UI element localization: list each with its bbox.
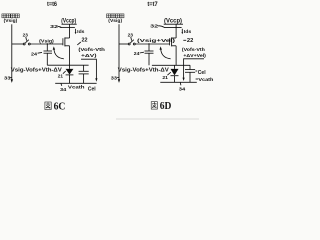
svg-text:(Vsig): (Vsig) xyxy=(4,18,18,24)
wire node-G from signal line to switch xyxy=(12,43,23,45)
capacitor C24 storage xyxy=(46,44,48,51)
svg-text:Ids: Ids xyxy=(184,29,192,35)
wire node-S horizontal xyxy=(152,64,190,66)
wire switch to gate xyxy=(30,43,62,45)
scan artifact faint line xyxy=(116,118,199,120)
wire cathode line xyxy=(160,81,197,83)
label 信号电位 (signal potential) xyxy=(107,14,124,18)
curved arrow bootstrap xyxy=(161,49,171,59)
svg-text:24: 24 xyxy=(134,51,140,57)
wire power supply line Vccp xyxy=(164,26,182,28)
svg-text:33: 33 xyxy=(4,75,11,81)
leader arrow from label to cathode line xyxy=(81,59,96,78)
label Vcath xyxy=(196,78,199,80)
svg-text:33: 33 xyxy=(111,75,118,81)
svg-text:22: 22 xyxy=(82,37,88,43)
wire node-G from signal line to switch xyxy=(119,43,128,45)
label Cel xyxy=(195,70,197,72)
capacitor Cel xyxy=(189,65,191,69)
switch 23 (sampling transistor, open) xyxy=(128,43,130,45)
svg-text:t=t6: t=t6 xyxy=(47,2,58,8)
svg-text:Vsig-Vofs+Vth-ΔV: Vsig-Vofs+Vth-ΔV xyxy=(118,67,170,73)
svg-text:34: 34 xyxy=(60,87,67,93)
svg-text:+ΔV+Vel): +ΔV+Vel) xyxy=(183,53,206,58)
curved arrow bootstrap xyxy=(54,49,64,59)
svg-text:6D: 6D xyxy=(160,101,172,112)
svg-text:(Vccp): (Vccp) xyxy=(61,18,76,25)
svg-text:+ΔV): +ΔV) xyxy=(81,53,97,58)
svg-text:(Vofs-Vth: (Vofs-Vth xyxy=(78,47,105,52)
svg-text:21: 21 xyxy=(58,73,64,79)
wire signal line 33 vertical xyxy=(118,24,120,79)
diode D21 OLED xyxy=(171,69,179,76)
wire cathode line xyxy=(55,82,96,84)
svg-text:23: 23 xyxy=(23,32,29,38)
wire power supply line Vccp xyxy=(60,26,75,28)
svg-text:34: 34 xyxy=(179,87,186,93)
node junction gate/capacitor xyxy=(148,43,149,44)
leader arrow from label down through node to cathode line xyxy=(184,59,204,79)
svg-text:24: 24 xyxy=(31,51,37,57)
svg-text:(Vofs-Vth: (Vofs-Vth xyxy=(182,47,205,52)
caption 图 6D xyxy=(151,102,157,109)
wire signal line 33 vertical xyxy=(11,24,13,79)
svg-text:(Vsig): (Vsig) xyxy=(39,38,54,43)
caption 图 6C xyxy=(45,102,51,110)
node junction gate/capacitor xyxy=(47,43,48,44)
svg-text:Vsig-Vofs+Vth-ΔV: Vsig-Vofs+Vth-ΔV xyxy=(11,67,63,73)
svg-text:(Vsig): (Vsig) xyxy=(108,18,122,24)
wire node-S horizontal xyxy=(47,64,88,66)
svg-text:(Vccp): (Vccp) xyxy=(164,18,182,25)
label 信号电位 (signal potential) xyxy=(2,14,19,18)
diode D21 OLED xyxy=(66,69,74,75)
svg-text:23: 23 xyxy=(128,32,134,38)
svg-text:6C: 6C xyxy=(54,101,66,112)
svg-text:Vcath: Vcath xyxy=(198,77,213,83)
svg-text:32: 32 xyxy=(150,23,158,29)
svg-text:t=t7: t=t7 xyxy=(147,2,158,8)
current arrow Ids xyxy=(75,29,77,33)
switch 23 (sampling transistor, open) xyxy=(23,43,25,45)
wire switch to gate xyxy=(135,43,169,45)
current arrow Ids xyxy=(181,29,183,33)
transistor Q22 drive xyxy=(169,38,171,45)
svg-text:Cel: Cel xyxy=(88,86,96,92)
svg-text:32: 32 xyxy=(50,24,58,30)
capacitor Cel xyxy=(83,65,85,71)
svg-text:(Vsig+Vel): (Vsig+Vel) xyxy=(137,38,176,43)
svg-text:Vcath: Vcath xyxy=(68,84,85,89)
svg-text:Cel: Cel xyxy=(198,70,206,76)
svg-text:22: 22 xyxy=(187,38,194,44)
capacitor C24 storage xyxy=(148,44,150,51)
label 22 xyxy=(183,39,186,41)
transistor Q22 drive xyxy=(62,38,64,45)
svg-text:Ids: Ids xyxy=(77,29,85,35)
svg-text:21: 21 xyxy=(162,75,168,81)
